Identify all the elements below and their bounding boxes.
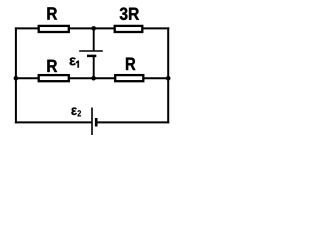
node: junction middle wire right	[166, 76, 171, 81]
label: epsilon-1 subscript 1	[76, 61, 79, 68]
label: value R of resistor R1	[47, 7, 57, 19]
label: value R of resistor R3	[47, 60, 57, 72]
wire: middle horizontal	[15, 77, 169, 79]
wire: left vertical	[15, 27, 17, 123]
wire: bottom left segment	[15, 121, 92, 123]
resistor R1 (top left, value R)	[39, 26, 69, 32]
battery E1 long plate (+)	[79, 50, 103, 52]
label: epsilon-2 subscript 2	[78, 110, 82, 116]
wire: battery E1 bottom lead	[93, 56, 95, 79]
label: value 3R of resistor R2	[120, 7, 139, 20]
battery E2 long plate (+)	[91, 108, 93, 136]
battery E1 short plate (-)	[87, 55, 96, 58]
resistor R2 (top right, value 3R)	[115, 26, 143, 32]
resistor R3 (middle left, value R)	[39, 75, 69, 81]
wire: right vertical	[167, 27, 169, 123]
node: junction middle wire / E1	[91, 76, 96, 81]
wire: battery E1 top lead	[93, 28, 95, 50]
label: EMF epsilon-2 symbol	[71, 108, 77, 115]
label: value R of resistor R4	[126, 58, 135, 70]
wire: top horizontal (node between R and 3R)	[15, 27, 169, 29]
label: EMF epsilon-1 symbol	[70, 57, 76, 65]
node: junction middle wire left	[14, 76, 19, 81]
wire: bottom right segment	[96, 121, 169, 123]
resistor R4 (middle right, value R)	[115, 75, 143, 81]
node: junction top wire / E1	[91, 26, 96, 31]
battery E2 short plate (-)	[95, 118, 98, 127]
